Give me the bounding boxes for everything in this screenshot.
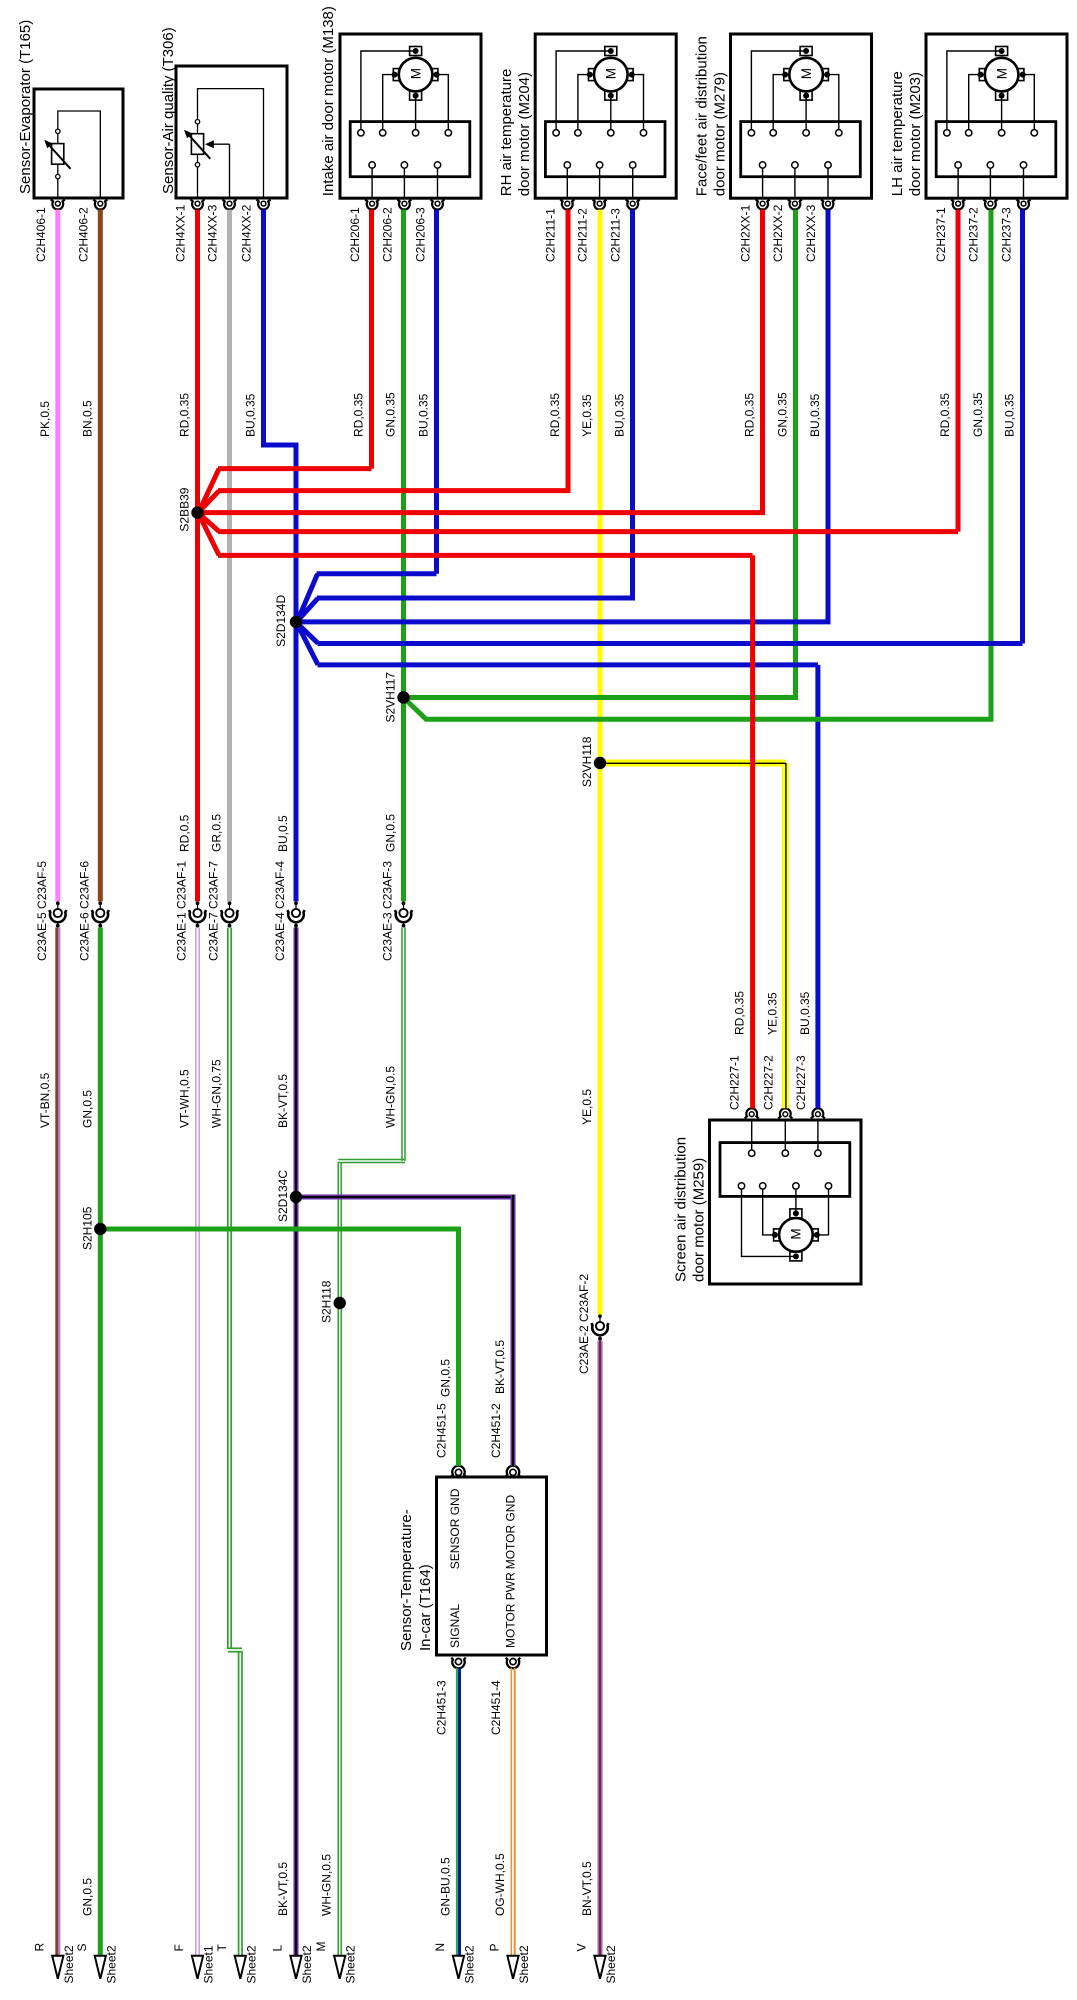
motor M203 title	[889, 71, 924, 196]
svg-text:GN-BU,0.5: GN-BU,0.5	[439, 1857, 453, 1916]
svg-text:door motor (M204): door motor (M204)	[516, 72, 533, 196]
wire GN,0.35 from M138 pin2 through splice S2VH117	[401, 210, 406, 902]
wire YE,0.35 / YE,0.5 from M204 pin2 down to connector C23AE-2	[598, 210, 603, 1315]
sensor T306 variable-resistor symbol	[184, 89, 264, 198]
svg-text:C2H227-3: C2H227-3	[794, 1055, 808, 1110]
motor M259 pin labels	[728, 1055, 808, 1110]
svg-text:Sheet2: Sheet2	[300, 1945, 314, 1983]
svg-text:RD,0.35: RD,0.35	[352, 393, 366, 437]
off-page connector S (Sheet2)	[75, 1943, 119, 1983]
svg-text:M: M	[604, 68, 619, 79]
svg-text:C23AE-6 C23AF-6: C23AE-6 C23AF-6	[78, 861, 92, 961]
wire RD,0.35 branch M138 pin1	[200, 210, 372, 511]
svg-text:R: R	[32, 1943, 46, 1952]
svg-text:SENSOR GND: SENSOR GND	[448, 1488, 462, 1569]
svg-text:N: N	[433, 1943, 447, 1952]
svg-text:Sheet2: Sheet2	[344, 1945, 358, 1983]
svg-text:MOTOR PWR: MOTOR PWR	[504, 1572, 518, 1648]
svg-text:P: P	[488, 1943, 502, 1951]
wire BK-VT,0.5 to L through splice S2D134C	[294, 928, 299, 1956]
T306 pin labels	[174, 204, 254, 262]
motor M203 motor symbol	[978, 47, 1026, 101]
svg-text:BU,0.35: BU,0.35	[1003, 393, 1017, 437]
T165 pin labels	[34, 207, 91, 262]
svg-text:F: F	[172, 1944, 186, 1951]
svg-text:PK,0.5: PK,0.5	[38, 401, 52, 437]
splice S2H105	[80, 1206, 106, 1250]
svg-text:RD,0.35: RD,0.35	[733, 991, 747, 1035]
svg-text:LH air temperature: LH air temperature	[889, 71, 906, 196]
svg-text:C2H237-3: C2H237-3	[1000, 207, 1014, 262]
off-page connector M (Sheet2)	[314, 1942, 358, 1984]
wire size labels mid	[178, 814, 398, 852]
off-page connector R (Sheet2)	[32, 1943, 76, 1984]
T164 pin connectors	[451, 1466, 520, 1669]
wire GN,0.5 to S through splice S2H105	[98, 928, 103, 1956]
svg-text:C2H406-2: C2H406-2	[76, 207, 90, 262]
motor M259 outer box	[710, 1120, 862, 1284]
wire BU,0.35 branch M204 pin3	[298, 210, 633, 621]
svg-text:YE,0.35: YE,0.35	[765, 992, 779, 1035]
sensor T306 box	[176, 66, 287, 198]
svg-text:S2VH117: S2VH117	[384, 672, 398, 723]
sensor T165 thermistor symbol	[44, 111, 100, 198]
svg-text:S2H105: S2H105	[80, 1206, 94, 1250]
svg-text:VT-BN,0.5: VT-BN,0.5	[38, 1072, 52, 1128]
wire VT-BN,0.5 to R	[55, 928, 58, 1956]
splice S2D134C	[276, 1170, 302, 1222]
motor M138 motor symbol	[392, 47, 440, 101]
svg-text:BU,0.5: BU,0.5	[276, 815, 290, 852]
svg-text:L: L	[271, 1945, 285, 1952]
svg-text:GN,0.5: GN,0.5	[80, 1090, 94, 1128]
svg-text:MOTOR GND: MOTOR GND	[504, 1495, 518, 1570]
svg-text:WH-GN,0.5: WH-GN,0.5	[384, 1066, 398, 1128]
svg-text:BU,0.35: BU,0.35	[417, 393, 431, 437]
wire GN,0.35 branch to M279 pin2	[409, 210, 796, 698]
svg-text:C2H451-4: C2H451-4	[489, 1680, 503, 1735]
motor M203 internal wiring	[947, 51, 1034, 198]
wire BK-VT,0.5 branch from S2D134C to T164 MOTOR GND	[296, 1195, 516, 1467]
svg-text:BK-VT,0.5: BK-VT,0.5	[276, 1862, 290, 1916]
connector C23AE-5 C23AF-5	[35, 861, 66, 961]
svg-text:RD,0.35: RD,0.35	[178, 393, 192, 437]
wire BN,0.5 from T165 pin2	[98, 210, 103, 902]
T164 title	[398, 1509, 434, 1651]
svg-text:S2D134D: S2D134D	[274, 595, 288, 647]
wire YE,0.35 branch from splice S2VH118 to M259 pin2	[600, 763, 786, 1108]
svg-text:door motor (M259): door motor (M259)	[691, 1158, 708, 1282]
svg-text:BK-VT,0.5: BK-VT,0.5	[276, 1074, 290, 1128]
svg-text:C2H211-2: C2H211-2	[576, 208, 590, 262]
T165 pin connectors	[51, 200, 108, 210]
motor M204 pin labels	[543, 208, 622, 262]
svg-text:BN,0.5: BN,0.5	[80, 400, 94, 437]
svg-text:Sensor-Air quality (T306): Sensor-Air quality (T306)	[160, 27, 177, 194]
svg-text:RH air temperature: RH air temperature	[498, 69, 515, 197]
svg-text:GR,0.5: GR,0.5	[210, 814, 224, 852]
wire size labels top	[38, 392, 1017, 437]
svg-text:C2H451-5: C2H451-5	[435, 1403, 449, 1458]
svg-text:C2H4XX-1: C2H4XX-1	[174, 204, 188, 262]
T306 pin connectors	[191, 200, 271, 210]
svg-text:WH-GN,0.5: WH-GN,0.5	[320, 1854, 334, 1916]
wire PK,0.5 from T165 pin1	[55, 210, 60, 902]
connector C23AE-3 C23AF-3	[381, 861, 412, 961]
svg-text:C23AE-4 C23AF-4: C23AE-4 C23AF-4	[273, 861, 287, 961]
splice S2D134D	[274, 595, 302, 647]
svg-text:VT-WH,0.5: VT-WH,0.5	[178, 1069, 192, 1128]
motor M259 connector strip	[720, 1143, 850, 1197]
svg-text:BN-VT,0.5: BN-VT,0.5	[580, 1861, 594, 1916]
T164 pin labels	[435, 1403, 504, 1735]
motor M279 motor symbol	[782, 47, 830, 101]
motor M138 connector strip	[350, 122, 470, 177]
off-page connector V (Sheet2)	[575, 1943, 619, 1983]
motor M203 outer box	[926, 34, 1067, 198]
svg-text:RD,0.35: RD,0.35	[743, 393, 757, 437]
off-page connector T (Sheet2)	[215, 1944, 258, 1984]
motor M204 internal wiring	[556, 51, 643, 198]
motor M203 pin connectors	[951, 200, 1030, 210]
motor M279 outer box	[731, 34, 872, 198]
off-page connector L (Sheet2)	[271, 1945, 315, 1984]
sensor T165 box	[34, 89, 123, 198]
svg-text:RD,0.35: RD,0.35	[548, 393, 562, 437]
wire RD,0.35 branch to M259 pin1	[200, 516, 753, 1109]
motor M138 internal wiring	[361, 51, 448, 198]
svg-text:BU,0.35: BU,0.35	[613, 393, 627, 437]
svg-text:C23AE-1 C23AF-1: C23AE-1 C23AF-1	[175, 861, 189, 961]
svg-text:C23AE-5 C23AF-5: C23AE-5 C23AF-5	[35, 861, 49, 961]
svg-text:Sheet2: Sheet2	[604, 1945, 618, 1983]
connector C23AE-6 C23AF-6	[78, 861, 109, 961]
motor M204 motor symbol	[587, 47, 635, 101]
svg-text:door motor (M203): door motor (M203)	[907, 72, 924, 196]
svg-text:C23AE-3 C23AF-3: C23AE-3 C23AF-3	[381, 861, 395, 961]
motor M279 connector strip	[741, 122, 861, 177]
svg-text:C2H451-2: C2H451-2	[489, 1403, 503, 1458]
svg-text:GN,0.5: GN,0.5	[384, 814, 398, 852]
wire GN-BU,0.5 from T164 SIGNAL to N	[456, 1668, 458, 1956]
svg-text:C2H237-1: C2H237-1	[934, 207, 948, 262]
svg-text:C2H406-1: C2H406-1	[34, 207, 48, 262]
motor M259 pin connectors	[745, 1108, 825, 1118]
svg-text:M: M	[314, 1942, 328, 1952]
svg-text:Sheet1: Sheet1	[202, 1945, 216, 1983]
svg-text:GN,0.35: GN,0.35	[384, 392, 398, 437]
off-page connector P (Sheet2)	[488, 1943, 532, 1983]
connector C23AE-7 C23AF-7	[207, 861, 238, 961]
svg-text:T: T	[215, 1944, 229, 1952]
svg-text:GN,0.35: GN,0.35	[776, 392, 790, 437]
svg-text:S2VH118: S2VH118	[580, 736, 594, 787]
motor M138 outer box	[340, 34, 481, 198]
svg-text:C2H211-3: C2H211-3	[609, 208, 623, 262]
motor M138 title	[320, 6, 337, 196]
svg-text:GN,0.5: GN,0.5	[80, 1878, 94, 1916]
svg-text:BU,0.35: BU,0.35	[798, 991, 812, 1035]
svg-text:S2BB39: S2BB39	[178, 487, 192, 531]
wire RD,0.35 branch M204 pin1	[200, 210, 569, 512]
motor M279 pin connectors	[756, 200, 835, 210]
svg-text:Sheet2: Sheet2	[104, 1945, 118, 1983]
svg-text:Sheet2: Sheet2	[517, 1945, 531, 1983]
off-page connector N (Sheet2)	[433, 1943, 477, 1984]
wire RD,0.35 branch M203 pin1	[200, 210, 959, 532]
svg-text:Sheet2: Sheet2	[463, 1945, 477, 1983]
wire size labels lower harness	[38, 1059, 507, 1397]
svg-text:WH-GN,0.75: WH-GN,0.75	[210, 1059, 224, 1128]
motor M138 pin connectors	[365, 200, 444, 210]
svg-text:SIGNAL: SIGNAL	[448, 1604, 462, 1648]
svg-text:RD,0.35: RD,0.35	[938, 393, 952, 437]
svg-text:C2H2XX-2: C2H2XX-2	[771, 204, 785, 262]
svg-text:GN,0.35: GN,0.35	[971, 392, 985, 437]
svg-text:S2D134C: S2D134C	[276, 1170, 290, 1222]
svg-text:YE,0.5: YE,0.5	[580, 1089, 594, 1125]
svg-text:C2H227-1: C2H227-1	[728, 1055, 742, 1110]
wire WH-GN,0.5 to M with jog through splice S2H118	[338, 928, 405, 1956]
svg-text:V: V	[575, 1943, 589, 1951]
svg-text:BK-VT,0.5: BK-VT,0.5	[493, 1340, 507, 1394]
wire BU,0.35 branch M138 pin3	[298, 210, 437, 620]
svg-text:GN,0.5: GN,0.5	[439, 1359, 453, 1397]
motor M203 connector strip	[936, 122, 1056, 177]
svg-text:door motor (M279): door motor (M279)	[712, 72, 729, 196]
svg-text:C23AE-2 C23AF-2: C23AE-2 C23AF-2	[577, 1274, 591, 1374]
svg-text:Screen air distribution: Screen air distribution	[673, 1137, 690, 1282]
svg-text:YE,0.35: YE,0.35	[580, 394, 594, 437]
svg-text:C2H451-3: C2H451-3	[435, 1680, 449, 1735]
svg-text:C2H206-3: C2H206-3	[414, 207, 428, 262]
svg-text:C23AE-7 C23AF-7: C23AE-7 C23AF-7	[207, 861, 221, 961]
svg-text:OG-WH,0.5: OG-WH,0.5	[493, 1853, 507, 1916]
wire OG-WH,0.5 from T164 MOTOR PWR to P	[510, 1668, 512, 1956]
wire size labels bottom	[80, 1853, 594, 1916]
wire BU,0.35 from T306 pin2 jog to splice S2D134D	[264, 210, 297, 902]
wire GN,0.5 branch from S2H105 to T164 SENSOR GND	[100, 1229, 458, 1466]
svg-text:C2H237-2: C2H237-2	[966, 207, 980, 262]
motor M204 connector strip	[545, 122, 665, 177]
wire RD,0.35 branch M279 pin1	[204, 210, 763, 513]
wire BU,0.35 branch to M259 pin3	[298, 626, 818, 1109]
splice S2BB39	[178, 487, 204, 531]
svg-text:S2H118: S2H118	[320, 1280, 334, 1323]
motor M259 motor symbol	[772, 1209, 820, 1261]
wire BU,0.35 branch M279 pin3	[302, 210, 828, 622]
svg-text:RD,0.5: RD,0.5	[178, 814, 192, 852]
svg-text:Intake air door motor (M138): Intake air door motor (M138)	[320, 6, 337, 196]
svg-text:C2H206-2: C2H206-2	[380, 207, 394, 262]
svg-text:In-car (T164): In-car (T164)	[417, 1564, 434, 1651]
svg-text:C2H4XX-2: C2H4XX-2	[240, 204, 254, 262]
motor M204 title	[498, 69, 533, 197]
svg-text:BU,0.35: BU,0.35	[244, 393, 258, 437]
svg-text:C2H2XX-1: C2H2XX-1	[739, 204, 753, 262]
wire BU,0.35 branch M203 pin3	[298, 210, 1023, 644]
svg-text:M: M	[789, 1228, 804, 1239]
svg-text:Sheet2: Sheet2	[244, 1945, 258, 1983]
svg-text:Sheet2: Sheet2	[62, 1945, 76, 1983]
wire BN-VT,0.5 from connector C23AE-2 to V	[598, 1341, 603, 1956]
svg-text:S: S	[75, 1943, 89, 1951]
T164 inner labels	[448, 1488, 518, 1648]
wire VT-WH,0.5 to F	[195, 928, 197, 1956]
connector C23AE-2 C23AF-2	[577, 1274, 608, 1374]
svg-text:Sensor-Evaporator (T165): Sensor-Evaporator (T165)	[17, 20, 34, 194]
svg-text:C2H211-1: C2H211-1	[543, 208, 557, 262]
motor M204 outer box	[535, 34, 676, 198]
svg-text:M: M	[799, 68, 814, 79]
svg-text:C2H227-2: C2H227-2	[761, 1055, 775, 1110]
wire size labels M259 drops	[580, 991, 812, 1125]
connector C23AE-4 C23AF-4	[273, 861, 304, 961]
svg-text:C2H206-1: C2H206-1	[348, 207, 362, 262]
svg-text:M: M	[408, 68, 423, 79]
wire RD,0.35 / RD,0.5 from T306 pin1 through splice S2BB39	[195, 210, 200, 902]
motor M138 pin labels	[348, 207, 427, 262]
wire GN,0.35 branch to M203 pin2	[405, 210, 991, 720]
splice S2VH118	[580, 736, 606, 787]
motor M279 pin labels	[739, 204, 818, 262]
svg-text:BU,0.35: BU,0.35	[808, 393, 822, 437]
svg-text:M: M	[994, 68, 1009, 79]
svg-text:Face/feet air distribution: Face/feet air distribution	[694, 36, 711, 196]
motor M203 pin labels	[934, 207, 1013, 262]
wire GR from T306 pin3	[227, 210, 232, 902]
splice S2H118	[320, 1280, 346, 1323]
motor M279 title	[694, 36, 729, 196]
off-page connector F (Sheet1)	[172, 1944, 216, 1983]
splice S2VH117	[384, 672, 410, 723]
svg-text:Sensor-Temperature-: Sensor-Temperature-	[398, 1509, 415, 1651]
motor M279 internal wiring	[751, 51, 838, 198]
motor M259 title	[673, 1137, 708, 1282]
connector C23AE-1 C23AF-1	[175, 861, 206, 961]
motor M204 pin connectors	[560, 200, 639, 210]
svg-text:C2H2XX-3: C2H2XX-3	[804, 204, 818, 262]
wire WH-GN,0.75 to T with jog	[228, 928, 242, 1956]
svg-text:C2H4XX-3: C2H4XX-3	[206, 204, 220, 262]
motor M259 internal wiring	[742, 1120, 829, 1256]
sensor T164 box	[437, 1477, 547, 1655]
